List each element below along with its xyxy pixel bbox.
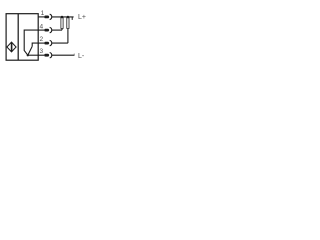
L+ rail	[52, 16, 74, 18]
compartment divider	[17, 14, 19, 61]
pin 2 lead	[38, 42, 44, 44]
svg-text:L+: L+	[78, 14, 86, 21]
connector pin 2	[44, 42, 49, 45]
svg-text:1: 1	[41, 10, 45, 17]
connector pin 4	[44, 29, 49, 32]
load resistor 2	[67, 18, 69, 29]
svg-text:L-: L-	[78, 53, 85, 60]
L- end tick	[73, 54, 75, 56]
pin 1 lead	[38, 16, 44, 18]
load1 bottom stub	[61, 29, 63, 30]
junction dot load1	[61, 16, 63, 18]
wire pin4 to load1	[52, 29, 63, 31]
switch: pin4 wire (NO contact)	[24, 30, 38, 55]
connector pin 3	[44, 54, 49, 57]
load resistor 1	[61, 18, 63, 29]
junction dot at switch pivot	[27, 54, 29, 56]
L- wire	[52, 54, 75, 56]
wire pin2 to load2	[52, 42, 68, 44]
load2 bottom stub	[67, 29, 69, 43]
svg-text:4: 4	[40, 23, 44, 30]
sensor enclosure box	[6, 14, 38, 61]
connector pin 1	[44, 16, 49, 19]
L+ end tick	[71, 17, 73, 20]
pin 4 lead	[38, 29, 44, 31]
switch common wire to pin3	[28, 54, 39, 56]
switch: pin2 wire (NC contact)	[32, 43, 38, 46]
svg-text:2: 2	[40, 36, 44, 43]
pin 3 lead	[38, 54, 44, 56]
junction dot load2	[67, 16, 69, 18]
svg-text:3: 3	[40, 48, 44, 55]
proximity sensor diamond	[7, 42, 16, 52]
switch blade	[28, 46, 32, 55]
